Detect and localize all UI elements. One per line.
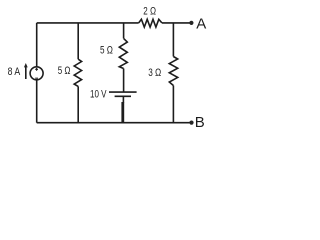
svg-text:5 Ω: 5 Ω <box>100 45 113 57</box>
svg-text:10 V: 10 V <box>90 89 107 101</box>
wire: middle branch between resistor and battery <box>123 69 125 93</box>
wire: bottom rail <box>37 122 191 124</box>
node A terminal dot <box>189 21 193 25</box>
svg-text:2 Ω: 2 Ω <box>143 6 156 18</box>
resistor 5-ohm middle zigzag <box>119 38 127 68</box>
wire: top rail right section to node A <box>162 22 191 24</box>
svg-text:3 Ω: 3 Ω <box>148 67 161 79</box>
svg-text:B: B <box>195 114 205 131</box>
svg-text:5 Ω: 5 Ω <box>58 65 71 77</box>
node B terminal dot <box>189 121 193 125</box>
svg-text:A: A <box>196 15 206 32</box>
current source circle (8 A source) <box>30 67 43 80</box>
wire: top rail left section <box>37 22 139 24</box>
wire: right branch lower segment <box>172 86 174 123</box>
wire: 5-ohm left branch upper segment <box>77 23 79 59</box>
wire: left branch upper segment <box>36 23 38 67</box>
resistor 2-ohm zigzag (horizontal) <box>139 19 162 27</box>
current direction arrow head <box>24 63 28 67</box>
wire: battery to bottom rail thick part <box>121 102 124 123</box>
battery 10V bottom plate <box>115 95 131 97</box>
current source + mark <box>35 68 38 71</box>
svg-text:8 A: 8 A <box>8 66 21 78</box>
resistor 3-ohm zigzag <box>169 57 177 86</box>
battery 10V top plate <box>109 91 137 93</box>
current source - mark <box>35 77 38 79</box>
wire: middle branch upper segment <box>123 23 125 39</box>
resistor 5-ohm left zigzag <box>74 59 81 86</box>
wire: battery to bottom rail thin part <box>122 96 124 102</box>
wire: right branch upper segment <box>172 23 174 57</box>
wire: 5-ohm left branch lower segment <box>77 86 79 122</box>
wire: left branch lower segment <box>36 80 38 123</box>
current direction arrow shaft for 8 A source <box>25 65 27 79</box>
